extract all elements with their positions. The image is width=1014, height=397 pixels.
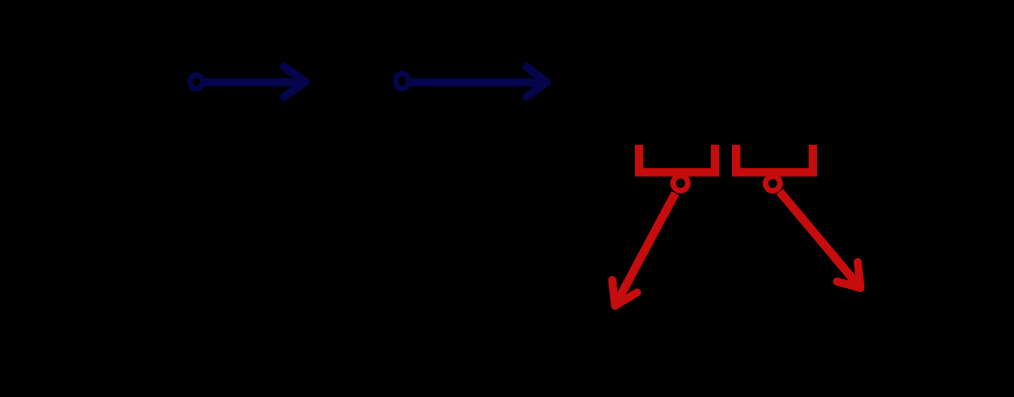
red arrow 2 shaft [780, 192, 861, 289]
red bracket 1 [639, 145, 715, 173]
blue arrow 1 tail circle [190, 75, 203, 89]
red arrow 1 tail circle [673, 176, 688, 191]
blue arrow 2 shaft [408, 78, 544, 86]
blue arrow 2 tail circle [396, 73, 409, 89]
red arrow 1 head [612, 280, 637, 306]
blue arrow 1 shaft [202, 78, 303, 86]
red arrow 2 head [837, 262, 861, 288]
red bracket 2 [736, 145, 813, 173]
blue arrow 1 head [284, 67, 306, 97]
red arrow 1 shaft [615, 193, 675, 306]
red arrow 2 tail circle [766, 176, 781, 191]
blue arrow 2 head [527, 67, 547, 97]
